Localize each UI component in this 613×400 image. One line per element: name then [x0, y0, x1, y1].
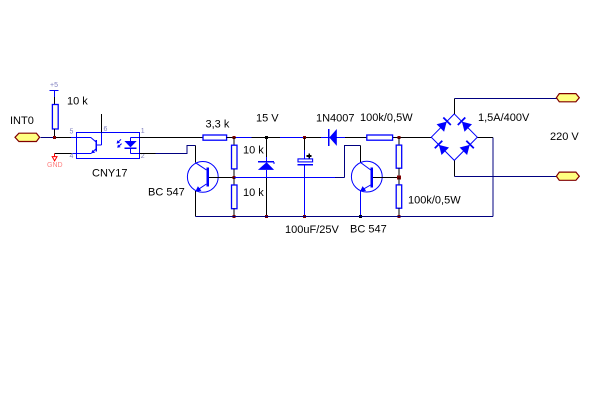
node divider mid — [233, 176, 236, 179]
U1 light arrows — [117, 139, 122, 147]
wire R1 bottom to node — [54, 129, 56, 138]
top rail wire — [227, 137, 432, 139]
bridge diode bottom-left — [435, 141, 449, 155]
node rail/right divider — [398, 136, 401, 139]
resistor R5 100k upper — [396, 145, 402, 168]
svg-text:100k/0,5W: 100k/0,5W — [360, 112, 413, 124]
wire R3 to bottom rail — [233, 209, 235, 217]
connector 220V bottom — [556, 172, 579, 180]
resistor R 3,3k — [203, 135, 227, 140]
svg-text:GND: GND — [47, 162, 63, 169]
svg-text:10 k: 10 k — [67, 96, 88, 108]
wire +5 to R1 — [54, 97, 56, 105]
svg-text:5: 5 — [70, 129, 74, 136]
wire Q1 base to divider — [209, 177, 235, 179]
node cap top — [303, 136, 306, 139]
wire R5 to mid node — [398, 168, 400, 177]
wire node to pin5 — [56, 137, 71, 139]
node zener top (black) — [265, 136, 268, 139]
op-to U1 CNY17 box — [77, 133, 140, 159]
wire middle rail (Q1 base to Q2 collector) — [235, 177, 336, 179]
svg-text:6: 6 — [104, 126, 108, 133]
wire junction to R2 — [233, 138, 235, 146]
svg-text:1: 1 — [141, 128, 145, 135]
svg-text:4: 4 — [70, 153, 74, 160]
node zener bottom — [265, 215, 268, 218]
resistor R 10k pullup — [52, 105, 58, 130]
wire pin2 to Q1 collector — [140, 153, 156, 155]
wire Q2 base to right divider — [373, 177, 399, 179]
transistor Q1 BC547 — [187, 162, 218, 193]
U1 LED — [124, 138, 139, 154]
diode D zener 15V — [258, 138, 274, 178]
node right divider mid — [397, 176, 401, 180]
svg-text:10 k: 10 k — [243, 145, 264, 157]
wire Q1 collector drop — [195, 145, 197, 162]
wire cap to bottom rail — [304, 178, 306, 217]
wire bridge top to connector — [454, 99, 456, 114]
node rail bottom R3 — [233, 215, 236, 218]
svg-text:2: 2 — [141, 153, 145, 160]
svg-text:100k/0,5W: 100k/0,5W — [408, 195, 461, 207]
wire bridge bottom to connector — [454, 160, 456, 176]
power +5 symbol — [50, 82, 59, 97]
connector INT0 — [15, 133, 40, 141]
resistor R6 100k lower — [396, 185, 402, 208]
svg-text:1,5A/400V: 1,5A/400V — [478, 112, 530, 124]
wire pin4 to GND — [55, 153, 73, 155]
diode D1 1N4007 — [321, 129, 345, 146]
svg-text:INT0: INT0 — [10, 115, 34, 127]
wire R2 to mid node — [233, 169, 235, 178]
wire Q2 emitter to bottom rail — [360, 191, 362, 217]
wire INT0 to node — [41, 137, 54, 139]
svg-text:10 k: 10 k — [243, 187, 264, 199]
resistor R4 100k/0,5W horizontal — [367, 135, 393, 140]
svg-text:3,3 k: 3,3 k — [206, 119, 230, 131]
wire pin1 to rail — [140, 137, 203, 139]
wire bottom rail — [196, 216, 494, 218]
resistor R3 10k lower — [232, 185, 238, 209]
svg-text:BC 547: BC 547 — [350, 224, 387, 236]
svg-text:1N4007: 1N4007 — [316, 113, 355, 125]
svg-text:+5: +5 — [50, 82, 58, 89]
bridge diode top-right — [458, 117, 472, 131]
svg-text:BC 547: BC 547 — [148, 187, 185, 199]
svg-text:CNY17: CNY17 — [92, 168, 127, 180]
wire blue segments on rail — [236, 137, 251, 139]
node R6/rail — [398, 215, 401, 218]
wire mid node to R6 — [398, 178, 400, 185]
node Q2 emitter/rail (black) — [359, 215, 362, 218]
connector 220V top — [556, 94, 579, 102]
svg-text:100uF/25V: 100uF/25V — [285, 224, 339, 236]
ground GND symbol — [47, 154, 63, 170]
svg-text:220 V: 220 V — [550, 131, 579, 143]
U1 phototransistor — [77, 133, 102, 154]
wire R6 to bottom rail — [398, 208, 400, 216]
node rail/R2 junction — [233, 136, 236, 139]
pin 6 stub — [101, 114, 103, 133]
transistor Q2 BC547 — [351, 161, 382, 192]
wire Q1 emitter to bottom rail — [195, 191, 197, 217]
wire zener to bottom rail — [266, 178, 268, 217]
bridge diode top-left — [437, 117, 451, 131]
node cap bottom — [303, 215, 306, 218]
resistor R2 10k upper — [232, 145, 238, 169]
wire bridge right corner down — [477, 137, 493, 139]
bridge diode bottom-right — [460, 141, 474, 155]
svg-text:15 V: 15 V — [256, 113, 279, 125]
node INT0/R1 junction — [53, 136, 56, 139]
capacitor C 100uF — [298, 138, 313, 178]
wire node to R5 — [398, 138, 400, 146]
bridge rectifier B1 diamond — [431, 114, 477, 160]
wire mid node to R3 — [233, 178, 235, 186]
